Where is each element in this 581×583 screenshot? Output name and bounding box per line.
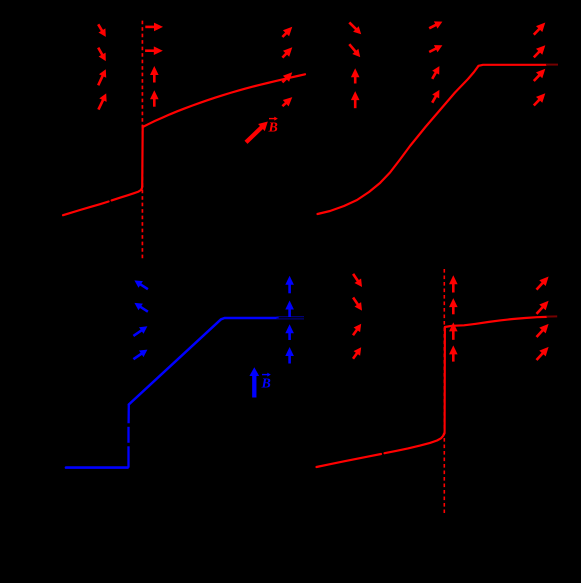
TR spin arrow col3 #2 (up-right 45deg) <box>534 45 546 57</box>
TL spin arrow col2 #4 (up) <box>150 90 159 106</box>
TR spin arrow col2 #4 (steep up-right) <box>432 90 439 103</box>
TL spin arrow col2 #1 (right) <box>145 23 163 32</box>
BR spin arrow col2 #3 (up) <box>449 322 458 339</box>
TL spin arrow col3 #4 (up-right 45deg) <box>282 97 292 106</box>
BL plateau tail upper edge (dark navy) <box>277 316 305 318</box>
BR red M(B) curve lower branch (segment 2, after small break) <box>385 433 445 453</box>
TR spin arrow col1 #1 (canted down-right) <box>349 22 361 34</box>
BL blue M(B) curve flat low-field segment <box>66 466 128 469</box>
TR red M(B) curve (continuous spin-flop-like rise to saturation) <box>318 65 547 214</box>
BR dashed critical-field line <box>443 269 445 513</box>
svg-text:B: B <box>268 121 278 136</box>
BR red M(B) curve upper branch <box>445 317 547 327</box>
TL spin arrow col1 #2 (canted down-right) <box>98 48 106 62</box>
BL spin arrow col1 #2 (canted up-left) <box>134 303 148 312</box>
label B-vector (bottom) <box>261 373 271 392</box>
BR spin arrow col1 #4 (canted up-right) <box>353 347 361 359</box>
BL spin arrow col2 #2 (up) <box>285 301 294 318</box>
BR red M(B) curve lower branch (segment 1) <box>317 454 382 467</box>
BR spin arrow col3 #3 (up-right 45deg) <box>537 324 549 337</box>
TR spin arrow col2 #2 (shallow up-right) <box>429 45 442 52</box>
TR spin arrow col3 #3 (up-right 45deg) <box>534 69 546 81</box>
BL blue curve vertical jump seg1 <box>127 446 129 467</box>
BL spin arrow col1 #4 (canted up-right) <box>133 350 147 360</box>
TL spin arrow col3 #3 (up-right 45deg) <box>282 72 292 82</box>
TR spin arrow col3 #4 (up-right 45deg) <box>534 93 546 105</box>
TR spin arrow col3 #1 (up-right 45deg) <box>534 23 546 35</box>
BL spin arrow col2 #3 (up) <box>285 324 294 340</box>
TR spin arrow col2 #3 (steep up-right) <box>432 66 439 79</box>
BL blue curve vertical jump seg3 <box>127 405 129 424</box>
TL red M(B) curve upper branch <box>143 74 305 127</box>
BR spin arrow col3 #2 (up-right 45deg) <box>537 301 549 314</box>
BL spin arrow col2 #4 (up) <box>285 347 294 364</box>
TR curve saturated tail (dark red) <box>546 64 558 66</box>
TR spin arrow col1 #3 (up) <box>351 68 360 83</box>
TL spin arrow col2 #3 (up) <box>150 66 159 83</box>
TL spin arrow col3 #1 (up-right 45deg) <box>282 27 292 37</box>
BR spin arrow col1 #3 (canted up-right) <box>353 324 361 336</box>
BL blue curve vertical jump seg2 <box>127 427 129 443</box>
BR spin arrow col3 #1 (up-right 45deg) <box>537 277 549 290</box>
TL spin arrow col1 #1 (canted down-right) <box>98 24 106 37</box>
applied field B thick arrow (top, 45deg) <box>246 122 268 143</box>
applied field B thick arrow (bottom, vertical) <box>249 367 259 397</box>
TL red curve vertical jump at critical field <box>141 126 144 187</box>
BL plateau tail lower edge (dark navy) <box>277 318 305 320</box>
BR spin arrow col2 #1 (up) <box>449 275 458 292</box>
TR spin arrow col1 #2 (canted down-right) <box>349 44 360 57</box>
BR curve saturated tail (dark red) <box>547 315 558 317</box>
BL spin arrow col1 #3 (canted up-right) <box>133 326 147 336</box>
BR red curve vertical jump at critical field <box>444 327 446 433</box>
BR spin arrow col3 #4 (up-right 45deg) <box>537 347 549 360</box>
TL spin arrow col2 #2 (right) <box>145 46 163 55</box>
BR spin arrow col2 #2 (up) <box>449 298 458 314</box>
TR spin arrow col1 #4 (up) <box>351 91 360 108</box>
BR spin arrow col1 #2 (canted down-right) <box>353 298 362 311</box>
TL dashed critical-field line <box>141 21 143 259</box>
TL red M(B) curve lower branch (segment 2, after small break) <box>112 186 143 200</box>
label B-vector (top) <box>268 117 278 136</box>
BL blue curve linear rise and saturation plateau <box>129 318 278 405</box>
TL spin arrow col1 #3 (canted up-right) <box>98 69 106 85</box>
BR spin arrow col1 #1 (canted down-right) <box>353 274 362 287</box>
BL spin arrow col2 #1 (up) <box>285 276 294 294</box>
TL spin arrow col1 #4 (canted up-right) <box>98 93 106 109</box>
TL spin arrow col3 #2 (up-right 45deg) <box>282 47 292 57</box>
BR spin arrow col2 #4 (up) <box>449 345 458 361</box>
svg-text:B: B <box>261 377 271 392</box>
BL spin arrow col1 #1 (canted up-left) <box>134 280 148 289</box>
TL red M(B) curve lower branch (segment 1) <box>63 202 109 216</box>
TR spin arrow col2 #1 (shallow up-right) <box>429 21 442 28</box>
